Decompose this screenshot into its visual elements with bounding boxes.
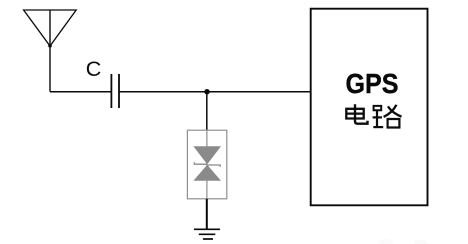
- svg-text:C: C: [86, 57, 102, 81]
- svg-text:GPS: GPS: [346, 68, 399, 99]
